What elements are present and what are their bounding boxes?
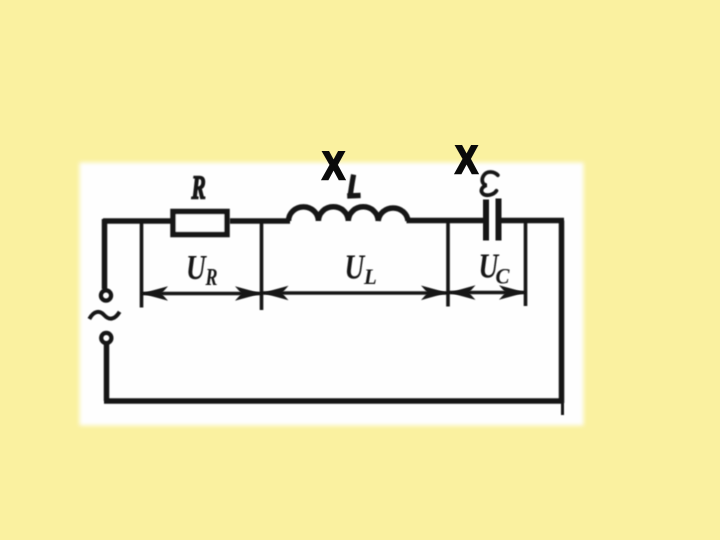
- dimension vertical at node A (x=141): [140, 222, 144, 308]
- wire: bottom horizontal: [104, 398, 564, 404]
- wire: inductor to capacitor: [407, 218, 484, 224]
- source terminal circle bottom: [101, 333, 111, 343]
- dimension vertical at node B (x=261): [260, 222, 264, 310]
- wire: resistor to inductor: [230, 218, 290, 224]
- dimension vertical at node C (x=449): [446, 222, 450, 307]
- dimension line U_L span: [263, 291, 447, 294]
- dimension vertical at node D (x=527): [524, 221, 528, 306]
- arrowhead right of U_C span: [499, 285, 526, 300]
- source terminal circle top: [101, 290, 111, 300]
- wire: top left horizontal (source to resistor): [103, 218, 172, 224]
- scanned figure white panel: [80, 163, 584, 426]
- svg-text:U: U: [186, 248, 207, 287]
- wire: left vertical upper (top wire to source): [102, 219, 108, 289]
- label L (inductor): [350, 175, 353, 195]
- wire: right vertical: [559, 221, 565, 404]
- svg-text:X: X: [323, 143, 345, 187]
- inductor L: [289, 207, 409, 221]
- arrowhead right of U_R span: [235, 286, 262, 301]
- svg-text:X: X: [456, 137, 478, 181]
- svg-text:U: U: [345, 247, 366, 286]
- wire: capacitor to right corner: [502, 218, 565, 224]
- svg-text:R: R: [205, 264, 218, 291]
- wire: left vertical lower (source to bottom): [104, 344, 110, 401]
- svg-text:C: C: [496, 264, 511, 289]
- label C (capacitor): [481, 172, 497, 195]
- wire: right vertical tail below corner: [561, 403, 564, 415]
- capacitor C plate right: [496, 199, 502, 241]
- resistor R: [173, 212, 227, 235]
- arrowhead left of U_R span: [142, 286, 169, 301]
- dimension line U_R span: [143, 292, 260, 295]
- dimension line U_C span: [450, 291, 525, 294]
- AC source tilde: [89, 312, 119, 319]
- svg-text:R: R: [191, 170, 206, 207]
- capacitor C plate left: [483, 200, 489, 241]
- svg-text:L: L: [363, 265, 377, 290]
- arrowhead left of U_L span: [262, 286, 289, 301]
- arrowhead left of U_C span: [449, 285, 476, 300]
- arrowhead right of U_L span: [421, 286, 448, 301]
